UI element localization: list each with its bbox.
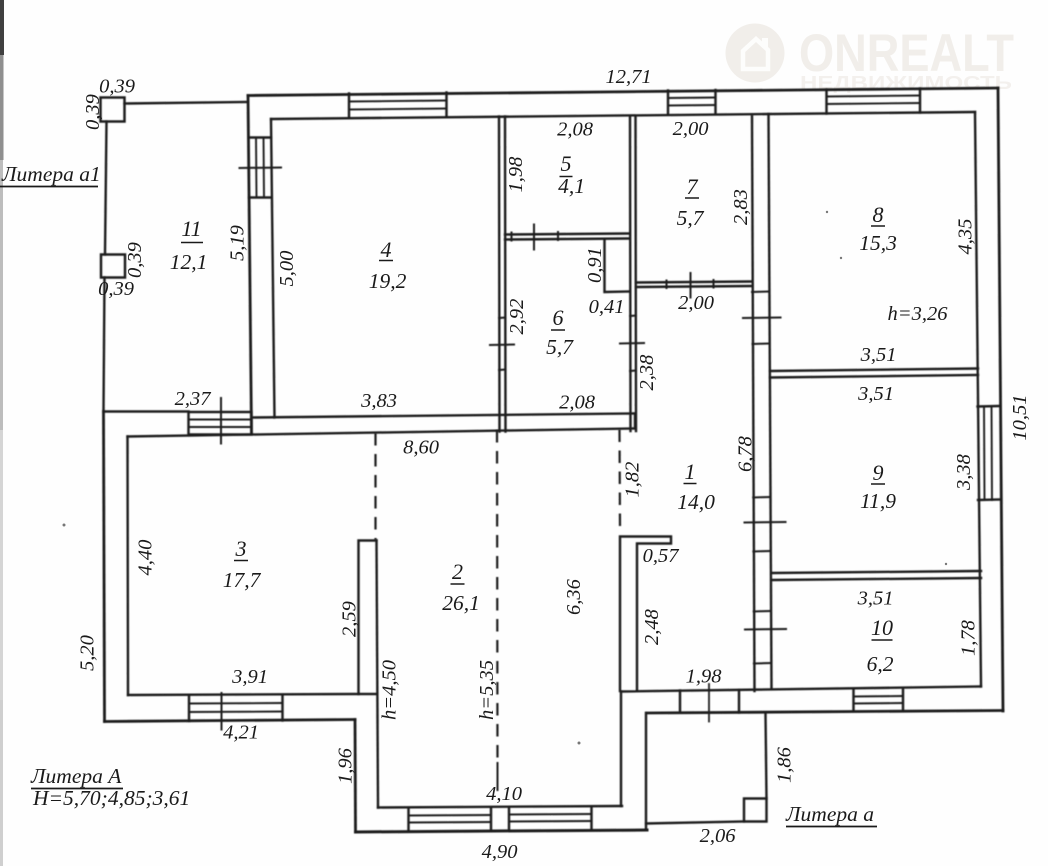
annex left wire lower [104, 278, 105, 412]
window room3 tick [221, 693, 223, 730]
svg-text:Литера а1: Литера а1 [1, 162, 101, 186]
svg-text:4,1: 4,1 [558, 174, 585, 198]
annex bottom wire [104, 410, 189, 412]
wall 56/71 vertical [630, 117, 636, 432]
stub wall room2/3 [359, 541, 377, 695]
svg-text:0,39: 0,39 [124, 242, 146, 278]
wall protrusion right inner [620, 692, 622, 807]
window right-wall caps [978, 406, 1001, 500]
svg-text:1,86: 1,86 [774, 746, 796, 783]
svg-text:2,92: 2,92 [506, 299, 528, 335]
wall room3 bottom outer [105, 720, 356, 722]
wall 7/1 jambs [667, 280, 714, 288]
svg-text:0,39: 0,39 [82, 94, 104, 130]
wall mid cap [634, 414, 636, 429]
svg-text:5,20: 5,20 [77, 635, 99, 671]
svg-text:2,00: 2,00 [673, 118, 709, 140]
svg-text:2,08: 2,08 [559, 392, 596, 414]
room number underlines [181, 177, 893, 641]
porch step square [744, 799, 767, 822]
wall 5/6 jambs [512, 232, 559, 241]
svg-text:5,7: 5,7 [677, 206, 705, 230]
dashed line room2/1 [618, 430, 621, 529]
svg-text:5,19: 5,19 [227, 225, 249, 261]
svg-text:0,39: 0,39 [98, 278, 134, 300]
svg-text:3,83: 3,83 [360, 390, 397, 412]
corner texts [0, 162, 877, 827]
svg-text:4,10: 4,10 [486, 783, 522, 805]
svg-text:1: 1 [685, 459, 696, 484]
window bottom B [509, 807, 592, 830]
wall 7/1 lines [636, 282, 752, 288]
wall protrusion bottom inner [378, 806, 622, 808]
window top W1 [349, 93, 447, 118]
svg-text:5: 5 [561, 151, 572, 176]
window top W3 [827, 89, 921, 114]
wall 5/6 lines [505, 234, 629, 240]
svg-text:3,51: 3,51 [857, 383, 894, 405]
wall 6/1 tick [620, 342, 644, 345]
svg-text:7: 7 [687, 174, 699, 199]
wall 8/9 [770, 369, 978, 378]
wall room3 bottom inner [128, 694, 359, 695]
svg-text:0,41: 0,41 [589, 296, 625, 318]
wall 5/6 tick [533, 225, 535, 250]
watermark logo circle with house [726, 24, 785, 83]
svg-text:8,60: 8,60 [403, 437, 439, 459]
leader line 1,98 [708, 684, 710, 722]
closet room6 [605, 239, 631, 292]
window top W2 [668, 90, 716, 115]
svg-text:19,2: 19,2 [369, 269, 407, 293]
svg-text:6,78: 6,78 [735, 435, 757, 472]
wall bottom-right inner [621, 687, 981, 692]
wall top outer [248, 88, 998, 96]
wall 7/1 tick [690, 273, 692, 298]
wall 6/1 rungs [630, 316, 636, 372]
svg-text:10,51: 10,51 [1009, 394, 1031, 440]
svg-text:3,51: 3,51 [857, 588, 894, 610]
svg-text:5,7: 5,7 [546, 335, 574, 359]
svg-text:1,82: 1,82 [622, 462, 644, 498]
svg-text:15,3: 15,3 [859, 231, 897, 255]
svg-text:h=3,26: h=3,26 [888, 303, 949, 325]
svg-text:1,98: 1,98 [505, 156, 527, 193]
wall room1 door ticks [743, 318, 786, 630]
doorway bottom jambs [680, 690, 739, 713]
svg-text:5,00: 5,00 [276, 251, 298, 287]
svg-text:11: 11 [181, 216, 201, 241]
svg-text:2,59: 2,59 [339, 601, 361, 637]
wall room1 right line a [752, 117, 755, 692]
annex left wire upper [105, 122, 107, 255]
wall top inner [271, 112, 975, 119]
svg-text:8: 8 [873, 202, 884, 227]
wall mid horizontal top line [252, 414, 635, 418]
wall room1 rungs [752, 292, 771, 664]
wall 0,57 stub [620, 537, 671, 692]
window bottom tick [497, 763, 499, 790]
wall 4/6 tick [490, 344, 514, 347]
post square a1 top [101, 98, 125, 122]
window left-wall caps [249, 138, 272, 198]
svg-text:2: 2 [452, 559, 463, 584]
svg-text:h=4,50: h=4,50 [379, 660, 401, 720]
svg-text:12,71: 12,71 [605, 66, 651, 88]
svg-text:h=5,35: h=5,35 [476, 660, 498, 720]
annex bottom window [189, 412, 252, 435]
wall 4/6 rungs [499, 318, 506, 371]
porch right wire [766, 714, 767, 799]
svg-text:2,37: 2,37 [175, 388, 212, 410]
wall protrusion left outer [354, 720, 357, 833]
wall main left inner [271, 119, 275, 418]
svg-text:0,91: 0,91 [584, 247, 606, 283]
svg-text:1,96: 1,96 [335, 747, 357, 784]
wall 4/56 vertical [499, 117, 506, 432]
svg-text:Н=5,70;4,85;3,61: Н=5,70;4,85;3,61 [32, 786, 190, 810]
svg-text:3,91: 3,91 [231, 666, 268, 688]
wall right inner [975, 112, 981, 687]
svg-text:0,39: 0,39 [99, 76, 135, 98]
window left-wall panes [256, 138, 264, 198]
scan edge strip [0, 0, 4, 866]
window bottom A [409, 808, 492, 831]
porch left wire [645, 713, 647, 829]
annex top wire [125, 102, 249, 104]
window left-wall tick [240, 167, 282, 170]
svg-text:4,40: 4,40 [135, 540, 157, 576]
svg-text:11,9: 11,9 [860, 489, 896, 513]
svg-text:2,38: 2,38 [636, 354, 658, 391]
svg-text:0,57: 0,57 [643, 545, 680, 567]
svg-text:3,38: 3,38 [953, 453, 975, 491]
dashed line room3/2 [374, 433, 376, 540]
svg-text:2,08: 2,08 [557, 119, 594, 141]
wall room1 right line b [769, 114, 772, 689]
dashed line room2 mid [496, 430, 499, 762]
window right-wall panes [984, 407, 992, 501]
svg-text:1,78: 1,78 [958, 619, 980, 656]
svg-text:3,51: 3,51 [860, 344, 897, 366]
svg-text:10: 10 [871, 615, 893, 640]
wall bottom-right outer [647, 711, 1004, 714]
stub wall right line continuing [377, 541, 379, 808]
svg-text:9: 9 [873, 460, 884, 485]
speck dots [63, 211, 948, 745]
svg-text:4,21: 4,21 [223, 722, 259, 744]
wall right outer [998, 88, 1003, 711]
wall protrusion bottom outer [356, 830, 648, 832]
svg-text:1,98: 1,98 [686, 666, 723, 688]
post square a1 mid [101, 255, 125, 278]
window room10 bottom [854, 689, 904, 711]
wall room3 left inner [126, 437, 129, 696]
annex window tick [220, 398, 222, 444]
svg-text:6,36: 6,36 [563, 578, 585, 615]
wall room3 left outer [104, 412, 105, 722]
svg-text:12,1: 12,1 [170, 250, 208, 274]
porch bottom wire [646, 822, 744, 824]
svg-text:6: 6 [553, 305, 564, 330]
wall mid horizontal bottom line [128, 429, 636, 437]
svg-text:4,90: 4,90 [482, 841, 518, 863]
svg-text:2,00: 2,00 [678, 292, 714, 314]
svg-text:Литера а: Литера а [785, 802, 874, 826]
window room3 bottom [189, 695, 283, 721]
svg-text:2,83: 2,83 [730, 189, 752, 225]
svg-text:17,7: 17,7 [223, 568, 262, 592]
svg-text:Литера А: Литера А [30, 764, 122, 788]
svg-text:6,2: 6,2 [867, 652, 894, 676]
svg-text:14,0: 14,0 [677, 490, 715, 514]
wall main left outer [248, 96, 252, 434]
svg-text:4,35: 4,35 [955, 219, 977, 255]
wall 9/10 [772, 571, 982, 580]
svg-text:26,1: 26,1 [442, 591, 480, 615]
dashed partitions [376, 430, 621, 763]
svg-text:3: 3 [235, 536, 247, 561]
svg-text:2,48: 2,48 [641, 608, 663, 645]
svg-text:4: 4 [381, 237, 392, 262]
svg-text:2,06: 2,06 [700, 825, 737, 847]
